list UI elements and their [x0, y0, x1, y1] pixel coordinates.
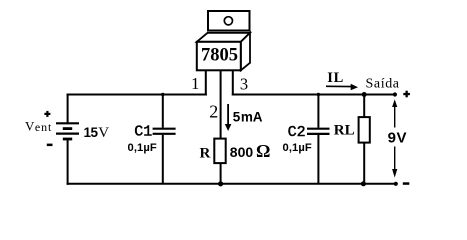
label 7805 — [201, 45, 238, 65]
svg-text:3: 3 — [240, 74, 248, 93]
arrow 9V measure top — [392, 99, 397, 127]
svg-text:ent: ent — [35, 120, 52, 134]
pin 1 wire — [205, 70, 207, 95]
svg-text:2: 2 — [209, 102, 218, 122]
svg-text:15: 15 — [84, 125, 99, 140]
svg-text:Ω: Ω — [256, 141, 270, 161]
resistor R — [214, 139, 225, 184]
label 9V — [388, 129, 407, 146]
regulator U1 tab — [208, 11, 250, 31]
pin 3 wire — [232, 70, 234, 95]
svg-text:RL: RL — [334, 122, 355, 138]
label 15V — [84, 125, 110, 141]
node RL top junction — [362, 92, 367, 97]
regulator body front face — [197, 42, 241, 71]
svg-text:1: 1 — [191, 74, 200, 93]
svg-text:V: V — [98, 125, 109, 141]
arrow 5mA current — [225, 104, 232, 131]
node C1 top junction — [161, 93, 164, 96]
regulator tab hole — [224, 17, 232, 25]
svg-text:C2: C2 — [288, 124, 306, 141]
wire left rail bottom (battery - to bottom rail) — [67, 139, 69, 185]
label Vent — [25, 118, 52, 134]
node C2 top junction — [317, 93, 320, 96]
pin 2 wire — [220, 70, 222, 138]
arrow IL current — [326, 84, 358, 90]
svg-text:0,1µF: 0,1µF — [128, 142, 157, 154]
wire top rail right (pin3 to output) — [232, 94, 395, 96]
svg-text:C1: C1 — [134, 124, 152, 141]
wire bottom rail — [67, 183, 396, 185]
svg-text:800: 800 — [230, 144, 254, 160]
svg-text:Saída: Saída — [366, 76, 400, 91]
label C2 value 0,1uF — [283, 142, 312, 154]
label IL — [327, 70, 344, 86]
output + sign — [403, 91, 410, 98]
svg-text:7805: 7805 — [201, 45, 238, 65]
battery - sign — [47, 144, 53, 147]
label pin 1 — [191, 74, 200, 93]
label RL — [334, 122, 355, 138]
svg-text:5 mA: 5 mA — [233, 109, 263, 124]
regulator body right face — [241, 33, 250, 71]
svg-text:0,1µF: 0,1µF — [283, 142, 312, 154]
node RL bottom junction — [361, 181, 366, 186]
node output top terminal — [393, 92, 397, 96]
svg-text:9V: 9V — [388, 129, 407, 146]
wire top rail left (pin1 to left rail) — [67, 94, 207, 96]
label R — [200, 145, 211, 161]
svg-text:V: V — [25, 118, 35, 133]
label pin 3 — [240, 74, 248, 93]
wire left rail top (battery + to top rail) — [67, 94, 69, 124]
battery + sign — [44, 111, 50, 117]
node output bottom terminal — [394, 182, 398, 186]
label C1 value 0,1uF — [128, 142, 157, 154]
label C2 — [288, 124, 306, 141]
label 5 mA — [233, 109, 263, 124]
regulator body top face — [197, 33, 250, 42]
svg-text:R: R — [200, 145, 211, 161]
label C1 — [134, 124, 152, 141]
battery Vent — [56, 123, 79, 139]
capacitor C2 — [307, 94, 330, 184]
label 800 ohm — [230, 141, 271, 161]
arrow 9V measure bottom — [392, 147, 397, 178]
node R bottom junction — [218, 181, 223, 186]
resistor RL — [359, 95, 370, 184]
svg-text:IL: IL — [327, 70, 344, 86]
label Saida — [366, 76, 400, 91]
label pin 2 — [209, 102, 218, 122]
capacitor C1 — [153, 94, 176, 184]
output - sign — [403, 182, 410, 185]
